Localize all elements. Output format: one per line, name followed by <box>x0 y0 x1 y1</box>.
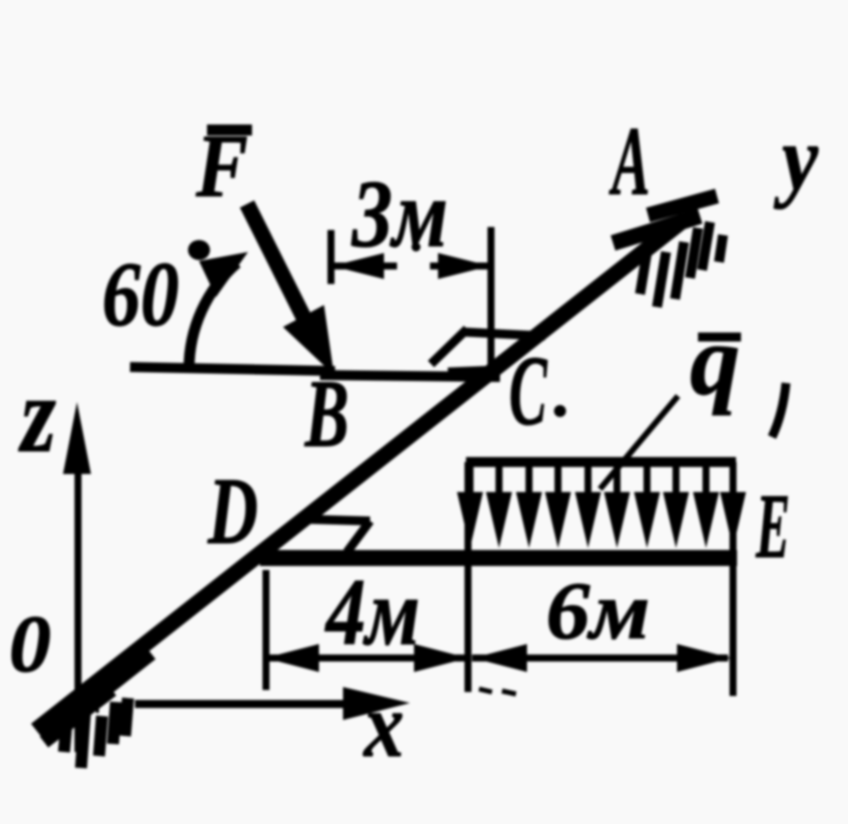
right extension line at E <box>730 462 737 696</box>
svg-text:4м: 4м <box>324 559 420 665</box>
svg-text:3м: 3м <box>351 160 448 267</box>
svg-text:D: D <box>207 458 258 564</box>
flag plate at D top edge <box>298 519 370 521</box>
flag plate at C top edge <box>463 332 545 336</box>
x axis <box>135 700 352 708</box>
4m right arrowhead <box>414 644 468 672</box>
svg-text:60: 60 <box>102 243 179 345</box>
rod BC <box>320 375 500 377</box>
small dot under 3m <box>412 243 421 252</box>
svg-text:B: B <box>304 360 349 467</box>
distributed load arrows <box>470 462 733 502</box>
label q bar <box>698 333 741 342</box>
leader line from q <box>600 396 678 489</box>
force F arrowhead <box>283 305 334 375</box>
svg-text:0: 0 <box>9 598 51 689</box>
label F bar <box>207 125 252 136</box>
support wall bar 2 at A <box>613 216 700 243</box>
distributed load top line <box>466 457 736 467</box>
rod DE <box>260 550 737 566</box>
flag plate at D right edge <box>347 521 370 552</box>
svg-text:q: q <box>690 305 740 416</box>
support wall bar 1 at A <box>648 196 717 215</box>
support pad at O <box>46 652 150 734</box>
svg-text:y: y <box>773 107 819 209</box>
6m right arrowhead <box>677 644 731 672</box>
3m extension line right <box>488 227 495 370</box>
flag plate at C left edge <box>431 329 467 364</box>
beam OA <box>36 219 685 730</box>
3m dimension line <box>334 263 397 270</box>
force F shaft <box>247 204 306 322</box>
comma after C <box>554 405 566 417</box>
dotted hatch row at O <box>60 710 102 711</box>
svg-text:x: x <box>362 674 404 776</box>
4m extension line below D <box>263 570 270 690</box>
x axis arrowhead <box>343 687 410 720</box>
6m dimension line <box>472 655 728 662</box>
svg-text:A: A <box>609 107 650 216</box>
svg-text:z: z <box>18 356 56 475</box>
svg-text:E: E <box>755 475 790 577</box>
3m left arrowhead <box>332 253 384 279</box>
3m extension line above B <box>328 230 335 284</box>
z axis <box>75 448 82 752</box>
middle extension line <box>465 462 472 692</box>
dashes near middle extension bottom <box>479 689 492 692</box>
6m left arrowhead <box>473 644 527 672</box>
stray tick right of q <box>772 383 786 437</box>
3m right arrowhead <box>438 253 490 279</box>
z axis arrowhead <box>63 402 91 474</box>
4m left arrowhead <box>265 644 319 672</box>
hatching at O <box>64 698 128 768</box>
svg-text:C: C <box>509 335 548 446</box>
svg-text:F: F <box>195 117 248 216</box>
svg-text:6м: 6м <box>546 565 650 656</box>
4m dimension line <box>268 655 466 662</box>
degree dot <box>188 240 210 260</box>
hatching at A <box>640 222 723 307</box>
angle arc arrowhead <box>199 252 248 297</box>
baseline at B <box>130 367 335 371</box>
angle arc 60 <box>189 263 237 369</box>
flag plate at D left edge <box>268 517 302 553</box>
